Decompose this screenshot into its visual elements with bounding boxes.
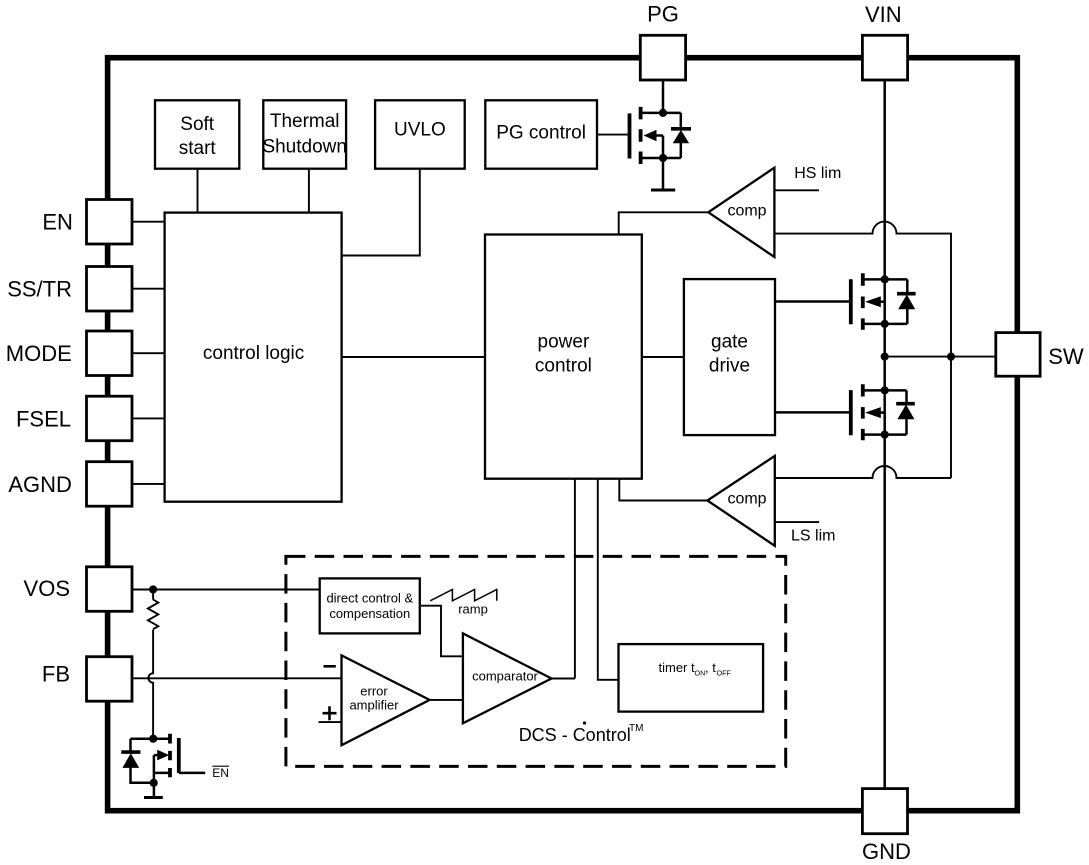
label AGND bbox=[8, 472, 72, 497]
block timer tON tOFF bbox=[619, 644, 764, 712]
pin SW bbox=[996, 333, 1040, 377]
svg-text:error: error bbox=[360, 684, 388, 699]
label GND bbox=[862, 839, 911, 864]
block PG control bbox=[485, 100, 597, 168]
pin MODE bbox=[87, 331, 133, 376]
label ramp bbox=[458, 602, 488, 617]
label MODE bbox=[6, 341, 72, 366]
label DCS - Control TM bbox=[519, 721, 644, 744]
wire LS lim input stub bbox=[775, 521, 819, 523]
svg-text:LS lim: LS lim bbox=[791, 528, 835, 545]
wire EN pin to control logic bbox=[132, 221, 165, 223]
svg-text:VIN: VIN bbox=[865, 2, 902, 27]
label EN-bar at Q4 gate bbox=[212, 766, 229, 780]
junction Q3 drain bbox=[881, 386, 889, 394]
svg-text:VOS: VOS bbox=[24, 576, 70, 601]
op-amp U4 error amplifier bbox=[342, 655, 430, 745]
wire direct control block to comparator ramp input bbox=[420, 606, 464, 657]
wire error amplifier U4 output to comparator bbox=[430, 699, 463, 701]
svg-text:start: start bbox=[179, 138, 217, 159]
wire PG control to Q1 gate bbox=[597, 134, 630, 136]
label VOS bbox=[24, 576, 70, 601]
svg-text:, t: , t bbox=[705, 660, 716, 675]
ground below Q4 bbox=[144, 796, 163, 799]
pin FB bbox=[87, 657, 133, 702]
svg-text:drive: drive bbox=[709, 356, 750, 377]
wire FB pin to error amplifier inverting input bbox=[132, 677, 342, 679]
svg-text:FSEL: FSEL bbox=[16, 406, 71, 431]
label PG bbox=[647, 2, 679, 27]
svg-text:Shutdown: Shutdown bbox=[262, 137, 347, 158]
label VIN bbox=[865, 2, 902, 27]
block gate drive bbox=[684, 279, 775, 435]
block control logic bbox=[165, 213, 342, 502]
junction Q4 source bbox=[150, 779, 158, 787]
svg-text:AGND: AGND bbox=[8, 472, 72, 497]
svg-text:control: control bbox=[535, 356, 592, 377]
block Soft start bbox=[155, 100, 239, 168]
wire VOS pin to direct control block bbox=[132, 589, 320, 591]
transistor Q1 PG-control MOSFET bbox=[630, 107, 681, 164]
block Thermal Shutdown bbox=[262, 100, 347, 168]
wire gate drive to Q2 gate bbox=[775, 300, 851, 303]
dashed DCS-Control boundary bbox=[286, 556, 786, 766]
pin VOS bbox=[87, 567, 133, 612]
svg-text:MODE: MODE bbox=[6, 341, 72, 366]
wire Soft start to control logic bbox=[197, 169, 199, 213]
svg-text:comparator: comparator bbox=[472, 669, 538, 684]
transistor Q4 FB discharge MOSFET bbox=[131, 734, 206, 798]
svg-text:EN: EN bbox=[212, 766, 229, 780]
ramp sawtooth symbol bbox=[430, 590, 497, 601]
junction Q3 source bbox=[881, 431, 889, 439]
wire Thermal Shutdown to control logic bbox=[308, 169, 310, 213]
label SW bbox=[1048, 344, 1084, 369]
wire control logic to power control bbox=[342, 356, 485, 358]
wire VIN rail from VIN pin through Q2 Q3 to GND pin bbox=[883, 80, 886, 789]
pin EN bbox=[87, 200, 133, 245]
pin VIN bbox=[862, 35, 907, 80]
svg-text:control logic: control logic bbox=[203, 343, 304, 364]
block power control bbox=[485, 235, 642, 479]
wire power control to timer bbox=[598, 479, 619, 680]
svg-text:SS/TR: SS/TR bbox=[7, 277, 72, 302]
label FSEL bbox=[16, 406, 71, 431]
svg-text:Soft: Soft bbox=[180, 114, 215, 135]
wire comp U2 input to SW node with hop over VIN rail bbox=[774, 222, 951, 478]
pin FSEL bbox=[87, 396, 133, 441]
svg-text:HS lim: HS lim bbox=[794, 165, 841, 182]
wire HS lim input stub bbox=[774, 189, 819, 191]
wire MODE pin to control logic bbox=[132, 352, 165, 354]
resistor R1 from VOS node bbox=[148, 590, 158, 630]
svg-text:TM: TM bbox=[629, 723, 643, 734]
junction SW node on rail bbox=[881, 353, 889, 361]
body diode D2 of Q2 bbox=[897, 279, 916, 324]
svg-text:compensation: compensation bbox=[329, 606, 410, 621]
svg-text:DCS - Control: DCS - Control bbox=[519, 725, 631, 745]
wire FSEL pin to control logic bbox=[132, 417, 165, 419]
ground below Q1 bbox=[651, 158, 675, 190]
body diode D3 of Q3 bbox=[896, 390, 915, 434]
body diode D1 of Q1 bbox=[671, 113, 691, 158]
pin AGND bbox=[87, 462, 133, 507]
label HS lim bbox=[794, 165, 841, 182]
label SS/TR bbox=[7, 277, 72, 302]
wire SW node to SW pin bbox=[885, 356, 996, 358]
op-amp U5 comparator bbox=[463, 633, 552, 723]
svg-text:PG: PG bbox=[647, 2, 679, 27]
junction SW node on comp sense line bbox=[947, 353, 955, 361]
pin SS/TR bbox=[87, 267, 133, 312]
svg-text:SW: SW bbox=[1048, 344, 1084, 369]
label LS lim bbox=[791, 528, 835, 545]
junction Q4 drain bbox=[149, 735, 157, 743]
wire gate drive to Q3 gate bbox=[775, 411, 851, 414]
svg-text:GND: GND bbox=[862, 839, 911, 864]
wire comparator U5 output bbox=[552, 678, 575, 680]
wire SS/TR pin to control logic bbox=[132, 288, 165, 290]
IC boundary bbox=[108, 58, 1018, 811]
junction Q2 drain / VIN node bbox=[881, 275, 889, 283]
pin GND bbox=[862, 789, 907, 834]
svg-text:direct control &: direct control & bbox=[326, 591, 413, 606]
junction Q2 source bbox=[881, 320, 889, 328]
block UVLO bbox=[375, 100, 465, 168]
pin PG bbox=[640, 35, 685, 80]
body diode D4 of Q4 bbox=[121, 739, 154, 783]
svg-text:timer t: timer t bbox=[659, 660, 696, 675]
svg-text:comp: comp bbox=[727, 491, 766, 508]
transistor Q3 low-side MOSFET bbox=[851, 384, 907, 440]
op-amp U3 comp LS current limit bbox=[707, 456, 774, 546]
wire power control to gate drive bbox=[642, 356, 684, 358]
label EN bbox=[42, 210, 73, 235]
op-amp U2 comp HS current limit bbox=[708, 168, 774, 257]
wire comp U3 output to power control bbox=[619, 479, 707, 501]
svg-text:UVLO: UVLO bbox=[394, 120, 446, 141]
svg-text:OFF: OFF bbox=[717, 669, 732, 678]
junction Q1 source bbox=[659, 154, 667, 162]
wire PG pin to Q1 drain bbox=[662, 80, 665, 113]
wire comp U3 input to SW node with hop over GND rail bbox=[775, 466, 951, 478]
wire R1 to Q4 drain with hop over FB line bbox=[148, 630, 153, 739]
block direct control and compensation bbox=[320, 578, 420, 633]
svg-text:amplifier: amplifier bbox=[349, 698, 399, 713]
wire comp U2 output to power control bbox=[619, 212, 709, 234]
svg-text:EN: EN bbox=[42, 210, 73, 235]
svg-text:Thermal: Thermal bbox=[270, 111, 340, 132]
label FB bbox=[42, 661, 70, 686]
svg-text:power: power bbox=[538, 332, 590, 353]
wire power control to comparator output node bbox=[574, 479, 576, 679]
wire AGND pin to control logic bbox=[132, 483, 165, 485]
svg-text:ramp: ramp bbox=[458, 602, 488, 617]
transistor Q2 high-side MOSFET bbox=[851, 273, 908, 329]
junction VOS node at R1 bbox=[149, 585, 157, 593]
wire UVLO to control logic bbox=[342, 169, 420, 256]
plus sign at U4 non-inverting input bbox=[323, 706, 337, 720]
svg-text:gate: gate bbox=[711, 332, 748, 353]
minus sign at U4 inverting input bbox=[324, 665, 336, 668]
svg-text:comp: comp bbox=[727, 203, 766, 220]
svg-text:PG control: PG control bbox=[496, 123, 586, 144]
svg-text:FB: FB bbox=[42, 661, 70, 686]
wire error amplifier non-inverting input stub bbox=[319, 721, 342, 723]
svg-text:ON: ON bbox=[695, 669, 706, 678]
junction Q1 drain bbox=[659, 109, 667, 117]
